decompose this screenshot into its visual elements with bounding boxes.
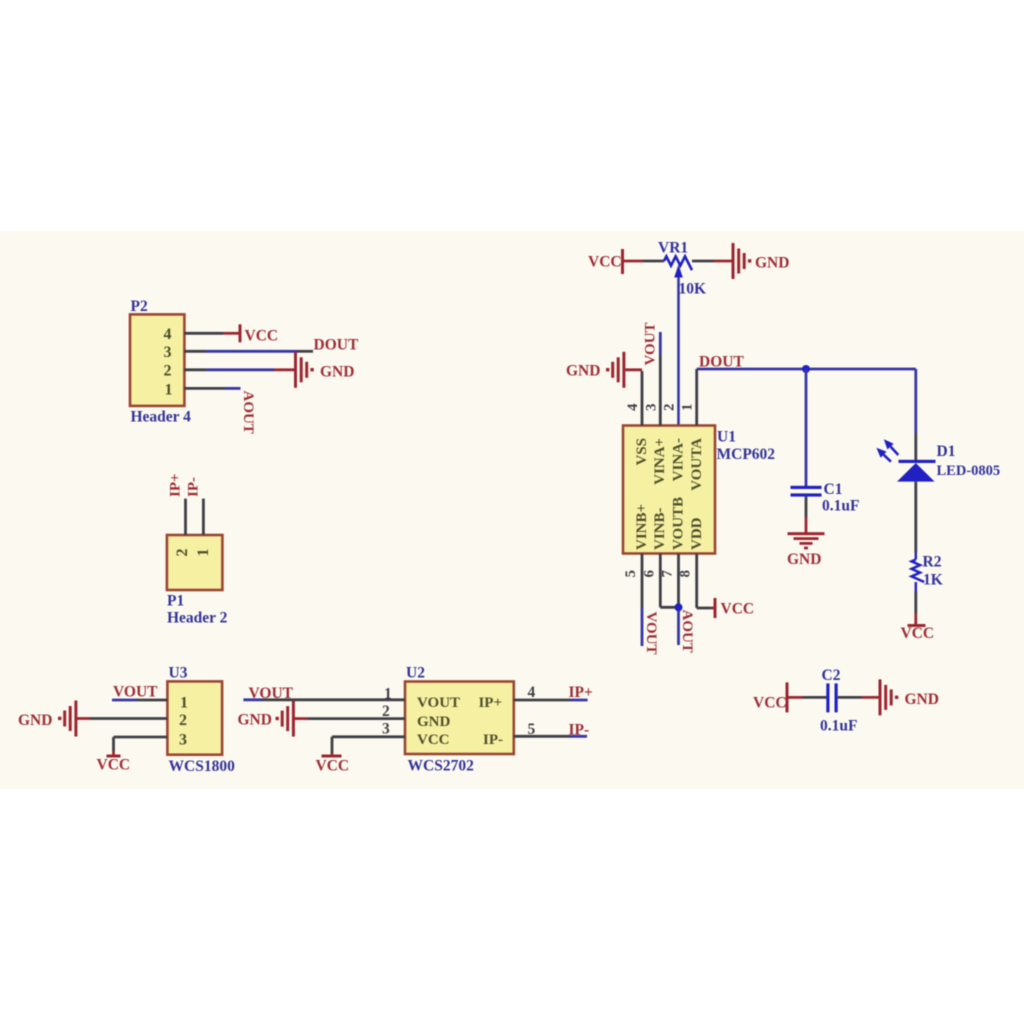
capacitor C1 (791, 486, 822, 489)
svg-text:AOUT: AOUT (679, 610, 695, 653)
wire U3 pin 1 VOUT (112, 699, 136, 702)
wire U2 pin 4 IP+ (514, 699, 571, 702)
ground GND (P2 pin 2) (294, 352, 297, 388)
wire DOUT to C1 (805, 369, 808, 487)
svg-text:8: 8 (678, 570, 694, 578)
wire U1 pin 3 net VOUT (659, 332, 662, 355)
op-amp U1 box (623, 426, 715, 554)
svg-text:MCP602: MCP602 (717, 446, 776, 463)
wire U2 pin 3 to VCC (332, 735, 405, 738)
svg-text:7: 7 (660, 570, 676, 578)
svg-text:1K: 1K (923, 572, 943, 589)
svg-text:3: 3 (643, 404, 659, 412)
svg-text:GND: GND (755, 255, 789, 272)
svg-text:10K: 10K (679, 281, 707, 298)
wire P2 pin 2 to GND (184, 368, 206, 371)
svg-text:1: 1 (165, 382, 173, 399)
wire P1 pin 1 IP- (202, 499, 205, 535)
svg-text:VR1: VR1 (658, 240, 688, 257)
svg-text:VOUT: VOUT (643, 612, 659, 655)
connector P1 box (167, 535, 223, 590)
svg-text:GND: GND (417, 714, 451, 730)
svg-text:U1: U1 (717, 429, 736, 446)
svg-text:3: 3 (382, 721, 390, 738)
svg-text:P1: P1 (167, 593, 184, 610)
power VCC (P2 pin 4) (239, 324, 242, 342)
wire U1 pin 4 stub (641, 371, 644, 426)
svg-text:GND: GND (566, 363, 600, 380)
svg-text:IP-: IP- (569, 722, 590, 739)
svg-text:VCC: VCC (245, 328, 279, 345)
potentiometer VR1 body (664, 256, 692, 270)
svg-text:VINA-: VINA- (671, 438, 687, 481)
wire DOUT (697, 368, 916, 371)
power VCC (R2) (908, 624, 926, 627)
svg-text:3: 3 (164, 344, 172, 361)
wire U2 pin 5 IP- (514, 735, 571, 738)
svg-text:VCC: VCC (901, 625, 935, 642)
wire VR1 to GND (692, 260, 714, 263)
wire U2 pin 1 VOUT (243, 698, 262, 701)
svg-text:2: 2 (662, 404, 678, 412)
wire P2 pin 1 AOUT (184, 387, 225, 390)
svg-text:Header 2: Header 2 (167, 610, 228, 627)
power VCC (U2 pin 3) (322, 755, 342, 758)
svg-text:GND: GND (18, 712, 52, 729)
svg-text:U2: U2 (406, 665, 425, 682)
ground GND (C1) (788, 532, 825, 535)
wire U1 pin 8 to VCC (695, 554, 698, 609)
svg-text:3: 3 (179, 732, 187, 749)
svg-text:GND: GND (320, 364, 354, 381)
svg-text:WCS2702: WCS2702 (408, 758, 475, 775)
svg-text:IP-: IP- (483, 732, 503, 748)
svg-text:IP-: IP- (186, 477, 202, 497)
capacitor C2 (826, 683, 829, 712)
svg-text:VOUT: VOUT (249, 685, 294, 702)
VR1 wiper arrow (674, 265, 683, 278)
svg-text:IP+: IP+ (569, 684, 594, 701)
svg-text:6: 6 (641, 570, 657, 578)
svg-text:VINB-: VINB- (652, 507, 668, 550)
svg-text:VSS: VSS (634, 438, 650, 466)
svg-text:D1: D1 (937, 443, 956, 460)
svg-text:VCC: VCC (316, 758, 350, 775)
wire P2 pin 4 to VCC (184, 332, 223, 335)
svg-text:VOUTB: VOUTB (671, 497, 687, 550)
svg-text:1: 1 (195, 549, 212, 557)
svg-text:VOUT: VOUT (643, 322, 659, 365)
svg-text:0.1uF: 0.1uF (822, 498, 859, 515)
svg-text:GND: GND (787, 551, 821, 568)
svg-text:VCC: VCC (753, 695, 787, 712)
wire U1 pin 5 net VOUT (641, 554, 644, 609)
svg-text:VCC: VCC (417, 732, 450, 748)
svg-text:WCS1800: WCS1800 (169, 758, 236, 775)
svg-text:VINA+: VINA+ (652, 438, 668, 485)
schematic sheet cream background (0, 231, 1024, 789)
wire U1 pin 7 net AOUT (677, 554, 680, 608)
wire U2 pin 2 to GND (295, 717, 309, 720)
svg-text:VCC: VCC (588, 254, 622, 271)
svg-text:IP+: IP+ (168, 473, 184, 497)
svg-text:C2: C2 (822, 667, 841, 684)
svg-text:VCC: VCC (721, 601, 755, 618)
svg-text:VCC: VCC (97, 757, 131, 774)
svg-text:U3: U3 (169, 665, 188, 682)
svg-text:4: 4 (164, 326, 172, 343)
wire VR1 wiper to U1 pin 2 (677, 277, 680, 426)
svg-text:DOUT: DOUT (699, 354, 744, 371)
svg-text:IP+: IP+ (478, 695, 502, 711)
svg-text:R2: R2 (923, 554, 942, 571)
svg-text:4: 4 (528, 684, 536, 701)
svg-text:0.1uF: 0.1uF (820, 718, 857, 735)
wire DOUT to D1 (914, 369, 917, 433)
sensor U2 box (405, 682, 514, 755)
svg-text:2: 2 (174, 549, 191, 557)
wire VCC to VR1 (624, 260, 643, 263)
LED D1 triangle (897, 463, 935, 482)
svg-text:VINB+: VINB+ (634, 504, 650, 550)
svg-text:1: 1 (680, 404, 696, 412)
resistor R2 (915, 553, 917, 560)
svg-text:P2: P2 (131, 298, 148, 315)
power VCC (U1 pin 8) (714, 598, 717, 618)
svg-text:AOUT: AOUT (240, 391, 256, 434)
wire P2 pin 3 DOUT (184, 350, 206, 353)
wire U3 pin 3 to VCC (114, 736, 168, 739)
junction node DOUT/C1 (802, 365, 810, 373)
connector P2 box (130, 314, 184, 406)
svg-text:4: 4 (625, 403, 641, 411)
LED D1 cathode bar (899, 460, 936, 463)
ground GND (VR1 right) (732, 243, 735, 279)
wire U1 pin 6 stub (659, 554, 662, 608)
svg-text:Header 4: Header 4 (131, 409, 192, 426)
svg-text:DOUT: DOUT (314, 337, 359, 354)
svg-text:2: 2 (179, 712, 187, 729)
svg-text:VOUT: VOUT (113, 684, 158, 701)
svg-text:VOUTA: VOUTA (689, 438, 705, 491)
wire C1 to GND (805, 497, 808, 517)
sensor U3 box (167, 681, 222, 754)
svg-text:1: 1 (180, 694, 188, 711)
wire U1 pin 1 stub (695, 369, 698, 426)
svg-text:GND: GND (905, 691, 939, 708)
svg-text:C1: C1 (824, 481, 843, 498)
wire C2 to GND (838, 696, 862, 699)
svg-text:VDD: VDD (689, 517, 705, 550)
svg-text:5: 5 (623, 570, 639, 578)
svg-text:VOUT: VOUT (417, 695, 460, 711)
wire R2 to VCC (914, 482, 917, 553)
svg-text:LED-0805: LED-0805 (937, 463, 1001, 479)
power VCC (U3 pin 3) (107, 755, 121, 758)
ground GND (C2) (879, 679, 882, 715)
svg-text:GND: GND (238, 712, 272, 729)
junction node pins 6-7 (675, 603, 683, 611)
wire P1 pin 2 IP+ (184, 499, 187, 535)
LED D1 emission arrows (891, 447, 899, 455)
svg-text:2: 2 (164, 362, 172, 379)
wire U3 pin 2 to GND (77, 717, 90, 720)
wire VCC to C2 (789, 696, 804, 699)
